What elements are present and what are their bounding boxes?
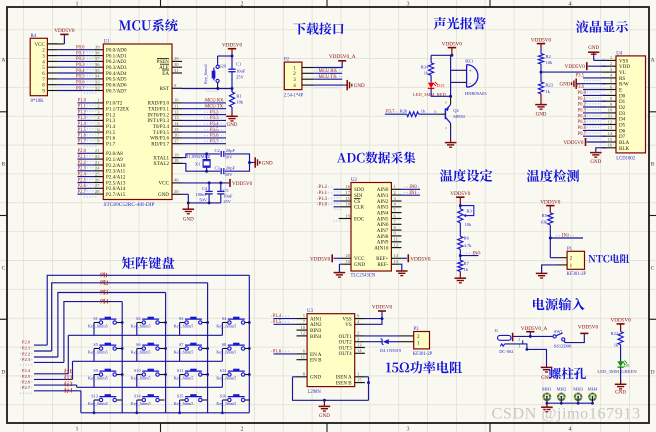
svg-text:Key_6mm5: Key_6mm5 xyxy=(216,401,236,406)
svg-text:GND: GND xyxy=(158,192,169,198)
svg-text:10: 10 xyxy=(174,98,179,103)
svg-text:C4: C4 xyxy=(202,186,208,191)
svg-text:+: + xyxy=(469,68,472,74)
power VDD5V0 (VCC pin) xyxy=(229,179,231,187)
svg-text:S3: S3 xyxy=(179,316,183,321)
svg-text:19: 19 xyxy=(345,213,350,218)
ground (LED) xyxy=(620,367,622,384)
svg-text:32: 32 xyxy=(95,85,100,90)
svg-text:b: b xyxy=(435,110,437,114)
svg-text:Key_6mm5: Key_6mm5 xyxy=(131,375,151,380)
svg-text:P3.6: P3.6 xyxy=(576,85,585,90)
svg-text:U2: U2 xyxy=(351,178,357,183)
wire GND rail (MCU) xyxy=(182,193,188,195)
svg-text:22: 22 xyxy=(95,154,100,159)
U1 XTAL pins xyxy=(172,157,182,159)
title temperature set xyxy=(440,169,492,182)
svg-text:VDD5V0: VDD5V0 xyxy=(372,305,393,311)
svg-text:P2.6: P2.6 xyxy=(22,380,31,385)
wire column feed 3 xyxy=(58,293,166,358)
title download port xyxy=(293,23,343,35)
svg-text:U4: U4 xyxy=(616,51,622,56)
title MCU system xyxy=(119,19,178,32)
MCU U1 xyxy=(103,44,172,200)
svg-text:34: 34 xyxy=(95,74,100,79)
svg-text:19: 19 xyxy=(174,152,179,157)
svg-text:XTAL2: XTAL2 xyxy=(153,161,169,167)
svg-text:RST: RST xyxy=(160,86,170,92)
svg-text:GND: GND xyxy=(262,162,273,167)
LED D15 red xyxy=(430,75,432,82)
svg-text:P2.0: P2.0 xyxy=(22,340,31,345)
svg-text:GND: GND xyxy=(310,375,321,381)
title matrix keyboard xyxy=(122,257,175,270)
svg-text:P0.4: P0.4 xyxy=(76,69,85,74)
svg-text:P3.4: P3.4 xyxy=(210,122,219,127)
power VDD5V0 (U3) xyxy=(365,318,382,320)
svg-text:D4 1N5819: D4 1N5819 xyxy=(380,348,402,353)
svg-text:18: 18 xyxy=(345,202,350,207)
svg-text:25V: 25V xyxy=(236,75,245,80)
net label col1 xyxy=(100,272,108,277)
LCD U4 LCD1602 xyxy=(616,56,646,153)
button S2 xyxy=(137,322,142,324)
svg-text:VDD5V0: VDD5V0 xyxy=(222,43,243,49)
ground (temp set) xyxy=(459,271,461,278)
svg-text:16: 16 xyxy=(608,143,613,148)
svg-text:R34: R34 xyxy=(421,65,429,70)
svg-text:C3: C3 xyxy=(215,165,221,170)
svg-text:S10: S10 xyxy=(134,368,141,373)
svg-text:VDD5V0: VDD5V0 xyxy=(540,199,561,205)
svg-text:P3.7: P3.7 xyxy=(210,139,219,144)
svg-text:10: 10 xyxy=(345,259,350,264)
wire column feed 4 xyxy=(64,302,122,363)
svg-text:P1: P1 xyxy=(567,247,573,252)
svg-text:10k: 10k xyxy=(540,220,548,225)
svg-text:MCU TX: MCU TX xyxy=(205,104,224,109)
svg-text:21: 21 xyxy=(95,148,100,153)
svg-text:17: 17 xyxy=(345,190,350,195)
svg-text:P2.4: P2.4 xyxy=(22,368,31,373)
svg-text:P2.1: P2.1 xyxy=(22,345,31,350)
svg-text:C2: C2 xyxy=(215,148,220,153)
svg-text:P0.1: P0.1 xyxy=(76,51,85,56)
svg-text:S1: S1 xyxy=(93,316,97,321)
svg-text:10k: 10k xyxy=(546,60,554,65)
capacitor C1 xyxy=(231,56,233,69)
ground (R/W) xyxy=(578,83,607,85)
svg-text:KF301-2P: KF301-2P xyxy=(567,272,587,277)
svg-text:R5: R5 xyxy=(542,213,548,218)
svg-text:VDD5V0: VDD5V0 xyxy=(54,28,75,34)
svg-text:P2.1: P2.1 xyxy=(78,155,87,160)
svg-text:GND: GND xyxy=(354,84,365,89)
svg-text:P2.6: P2.6 xyxy=(78,184,87,189)
button S8 xyxy=(222,348,227,350)
svg-text:VDD5V0: VDD5V0 xyxy=(611,317,632,323)
wire jack sleeve to ground xyxy=(500,344,504,346)
svg-text:P1.0: P1.0 xyxy=(319,203,328,208)
capacitor C2 20pF xyxy=(220,151,222,157)
svg-text:P0.5: P0.5 xyxy=(578,120,587,125)
svg-text:P1.4: P1.4 xyxy=(78,122,87,127)
svg-text:VDD5V0: VDD5V0 xyxy=(531,37,552,43)
title ADC data acquisition xyxy=(337,152,416,164)
svg-text:50V: 50V xyxy=(199,197,208,202)
svg-text:P1.5: P1.5 xyxy=(78,128,87,133)
svg-text:VDD5V0: VDD5V0 xyxy=(232,181,253,187)
button S16 xyxy=(222,399,227,401)
button S11 xyxy=(180,374,185,376)
ground (MCU) xyxy=(187,203,189,209)
resistor R7 1k xyxy=(458,260,463,271)
svg-text:Key_6mm5: Key_6mm5 xyxy=(131,349,151,354)
svg-text:GND: GND xyxy=(536,112,547,117)
svg-text:14: 14 xyxy=(357,348,362,353)
ground (R23) xyxy=(540,94,542,105)
svg-text:11: 11 xyxy=(608,114,613,119)
svg-text:17: 17 xyxy=(174,139,179,144)
svg-text:P3: P3 xyxy=(414,327,420,332)
svg-text:X1: X1 xyxy=(195,161,201,166)
svg-text:10k: 10k xyxy=(465,222,473,227)
svg-text:P3.2: P3.2 xyxy=(210,110,219,115)
svg-text:HNB09A03: HNB09A03 xyxy=(465,91,488,96)
svg-text:P0.7/AD7: P0.7/AD7 xyxy=(106,88,127,94)
svg-text:1k: 1k xyxy=(614,342,619,347)
svg-text:P3.5: P3.5 xyxy=(210,128,219,133)
ground (VSS top) xyxy=(594,59,606,61)
title temperature detect xyxy=(527,169,579,182)
net label row3 xyxy=(64,381,73,386)
svg-text:P0.5: P0.5 xyxy=(76,75,85,80)
resistor R6 4.7k xyxy=(459,223,461,237)
svg-text:25V: 25V xyxy=(223,199,232,204)
svg-text:VDD5V0: VDD5V0 xyxy=(442,41,463,47)
svg-text:15: 15 xyxy=(174,127,179,132)
svg-text:Key_6mm5: Key_6mm5 xyxy=(88,323,108,328)
svg-text:VDD5V0: VDD5V0 xyxy=(450,191,471,197)
svg-text:R2: R2 xyxy=(546,54,551,59)
potentiometer R3 10k xyxy=(459,206,461,209)
svg-text:15: 15 xyxy=(608,137,613,142)
svg-text:Key_6mm5: Key_6mm5 xyxy=(88,349,108,354)
svg-text:20pF: 20pF xyxy=(226,165,236,170)
resistor R23 1k xyxy=(540,72,542,82)
svg-text:P1.4: P1.4 xyxy=(273,314,282,319)
svg-text:33: 33 xyxy=(95,80,100,85)
svg-text:P0.3: P0.3 xyxy=(76,63,85,68)
svg-text:P2.3: P2.3 xyxy=(78,167,87,172)
svg-text:3: 3 xyxy=(407,2,410,8)
svg-text:4: 4 xyxy=(569,427,572,432)
svg-text:P2.2: P2.2 xyxy=(78,161,87,166)
ground (download) xyxy=(314,84,345,86)
svg-text:P1.7: P1.7 xyxy=(78,140,87,145)
svg-text:GND: GND xyxy=(560,83,571,88)
button S10 xyxy=(137,374,142,376)
svg-text:OUT4: OUT4 xyxy=(339,351,352,357)
svg-text:B: B xyxy=(2,162,6,168)
svg-text:P0.1: P0.1 xyxy=(578,97,587,102)
svg-text:MH3: MH3 xyxy=(573,387,583,392)
wire E net P3.6 xyxy=(583,89,606,91)
svg-text:P0.7: P0.7 xyxy=(578,132,587,137)
svg-text:IN0: IN0 xyxy=(409,185,417,190)
svg-text:Key_6mm5: Key_6mm5 xyxy=(216,375,236,380)
svg-text:KF301-2P: KF301-2P xyxy=(413,352,433,357)
svg-text:B: B xyxy=(651,162,655,168)
svg-text:3: 3 xyxy=(407,427,410,432)
svg-text:1k: 1k xyxy=(424,71,429,76)
title power input xyxy=(533,298,585,311)
svg-text:P2.5: P2.5 xyxy=(78,178,87,183)
svg-text:S8: S8 xyxy=(222,342,226,347)
button S3 xyxy=(180,322,185,324)
svg-text:11: 11 xyxy=(394,237,399,242)
svg-text:37: 37 xyxy=(95,56,100,61)
svg-text:13: 13 xyxy=(608,125,613,130)
svg-text:P2.3: P2.3 xyxy=(22,357,31,362)
svg-text:Key_6mm5: Key_6mm5 xyxy=(88,375,108,380)
svg-text:P1.2: P1.2 xyxy=(319,185,328,190)
power VDD5V0 (switch) xyxy=(564,333,584,342)
svg-text:R1: R1 xyxy=(236,94,241,99)
svg-text:GND: GND xyxy=(354,262,365,268)
button S14 xyxy=(137,399,142,401)
wire stud gnd rail xyxy=(547,402,593,404)
svg-text:VDD5V0: VDD5V0 xyxy=(563,140,584,146)
svg-text:4: 4 xyxy=(569,2,572,8)
svg-text:P0.0: P0.0 xyxy=(578,91,587,96)
U1 pins PSEN ALE EA xyxy=(172,60,182,62)
svg-text:SW1: SW1 xyxy=(554,329,563,334)
svg-text:IN1: IN1 xyxy=(409,191,417,196)
ground (studs) xyxy=(546,403,548,407)
svg-text:10k: 10k xyxy=(236,100,244,105)
wires P2.4-P2.7 (rows) xyxy=(34,373,68,375)
wire row line 3 xyxy=(77,386,223,388)
svg-text:P0.2: P0.2 xyxy=(578,103,587,108)
ground (REF-) xyxy=(398,264,402,271)
svg-text:1: 1 xyxy=(76,427,79,432)
svg-text:14: 14 xyxy=(394,253,399,258)
svg-text:P2.7: P2.7 xyxy=(22,385,31,390)
svg-text:Key_6mm5: Key_6mm5 xyxy=(131,401,151,406)
svg-text:VDD5V0: VDD5V0 xyxy=(565,64,586,70)
ground (reset R1) xyxy=(231,107,233,111)
svg-text:16: 16 xyxy=(174,133,179,138)
connector P3 KF301-2P xyxy=(414,332,430,349)
svg-text:2.54-1*4P: 2.54-1*4P xyxy=(284,93,304,98)
svg-text:Key_6mm5: Key_6mm5 xyxy=(216,349,236,354)
svg-text:2: 2 xyxy=(241,2,244,8)
svg-text:23: 23 xyxy=(95,160,100,165)
svg-text:36: 36 xyxy=(95,62,100,67)
svg-text:12: 12 xyxy=(300,331,305,336)
wire IN0 tap xyxy=(459,254,462,257)
svg-text:13: 13 xyxy=(394,259,399,264)
net label row4 xyxy=(64,388,73,393)
svg-text:50V: 50V xyxy=(225,172,234,177)
svg-text:20pF: 20pF xyxy=(226,148,236,153)
ground (alarm) xyxy=(450,123,452,126)
wire ISEN A/B to gnd rail xyxy=(365,376,369,378)
svg-text:VDD5V0: VDD5V0 xyxy=(578,325,599,331)
wire XTAL loop xyxy=(172,157,182,159)
wire MCU RX xyxy=(314,72,342,74)
svg-text:REF-: REF- xyxy=(377,262,388,268)
button S7 xyxy=(180,348,185,350)
svg-text:35: 35 xyxy=(95,68,100,73)
svg-text:LED_3MM_GREEN: LED_3MM_GREEN xyxy=(597,369,637,374)
svg-text:GND: GND xyxy=(588,46,599,51)
svg-text:CSDN @jimo167913: CSDN @jimo167913 xyxy=(492,405,641,423)
svg-text:BLK: BLK xyxy=(619,146,630,152)
net label col2 xyxy=(100,280,109,285)
svg-text:Key_6mm5: Key_6mm5 xyxy=(174,349,194,354)
wires P2.0-P2.3 (columns) xyxy=(34,344,47,346)
wire RS net P3.5 xyxy=(583,77,606,79)
svg-text:P2.7: P2.7 xyxy=(78,190,87,195)
svg-text:S12: S12 xyxy=(220,368,227,373)
svg-text:P0.4: P0.4 xyxy=(578,114,587,119)
svg-text:IN0: IN0 xyxy=(473,251,481,256)
svg-text:P0.3: P0.3 xyxy=(578,109,587,114)
svg-text:P0.7: P0.7 xyxy=(76,86,85,91)
svg-text:R22: R22 xyxy=(611,331,619,336)
resistor R5 10k xyxy=(548,213,553,225)
svg-text:Key_6mm5: Key_6mm5 xyxy=(174,323,194,328)
title NTC resistor xyxy=(588,254,629,263)
svg-text:3: 3 xyxy=(518,345,520,349)
svg-text:24: 24 xyxy=(95,166,100,171)
svg-text:12: 12 xyxy=(394,242,399,247)
wire reset top xyxy=(218,55,232,57)
svg-text:14: 14 xyxy=(174,121,179,126)
svg-text:R26: R26 xyxy=(400,108,408,113)
svg-text:38: 38 xyxy=(95,50,100,55)
title sound-light alarm xyxy=(434,17,486,29)
svg-text:Key_6mm5: Key_6mm5 xyxy=(203,64,208,84)
wire OUT1 to P3 xyxy=(365,335,399,337)
svg-text:1k: 1k xyxy=(464,267,469,272)
power VDD5V0 (R4) xyxy=(47,43,64,45)
svg-text:AIN10: AIN10 xyxy=(374,246,389,252)
svg-text:P3.5: P3.5 xyxy=(576,74,585,79)
svg-text:1k: 1k xyxy=(545,89,550,94)
svg-text:MCU RX: MCU RX xyxy=(319,69,338,74)
svg-text:29: 29 xyxy=(174,56,179,61)
svg-text:STC89C52RC-40I-DIP: STC89C52RC-40I-DIP xyxy=(104,202,155,208)
svg-text:Key_6mm5: Key_6mm5 xyxy=(216,323,236,328)
wire row line 1 xyxy=(68,334,222,336)
wire U3 gnd rail xyxy=(293,376,297,378)
svg-text:P1.1: P1.1 xyxy=(78,105,87,110)
svg-text:Key_6mm5: Key_6mm5 xyxy=(174,401,194,406)
svg-text:A: A xyxy=(651,58,655,64)
svg-text:10: 10 xyxy=(608,108,613,113)
svg-text:A: A xyxy=(1,58,5,64)
svg-text:S6: S6 xyxy=(136,342,140,347)
svg-text:4.7k: 4.7k xyxy=(464,243,473,248)
svg-text:14: 14 xyxy=(608,131,613,136)
svg-text:GND: GND xyxy=(615,391,626,396)
button S12 xyxy=(222,374,227,376)
svg-text:D: D xyxy=(651,370,655,376)
svg-text:11: 11 xyxy=(301,355,306,360)
svg-text:18: 18 xyxy=(174,158,179,163)
svg-text:D15: D15 xyxy=(437,83,445,88)
resistor R1 10k xyxy=(231,89,233,93)
ground (power input) xyxy=(541,366,553,368)
svg-text:GND: GND xyxy=(227,123,238,128)
svg-text:P1.3: P1.3 xyxy=(319,197,328,202)
svg-text:10: 10 xyxy=(300,325,305,330)
svg-text:C: C xyxy=(651,266,655,272)
svg-text:30: 30 xyxy=(174,62,179,67)
svg-text:U3: U3 xyxy=(307,309,313,314)
wire column feed 2 xyxy=(52,283,208,351)
U1 VCC GND pins xyxy=(172,182,182,184)
svg-text:16: 16 xyxy=(345,184,350,189)
svg-text:40: 40 xyxy=(174,178,179,183)
switch SW1 SS12D00 xyxy=(553,335,556,338)
svg-text:ISEN B: ISEN B xyxy=(336,381,353,387)
wire row line 4 xyxy=(81,412,223,414)
svg-text:1: 1 xyxy=(76,2,79,8)
svg-text:13: 13 xyxy=(174,115,179,120)
svg-text:100nF: 100nF xyxy=(195,192,207,197)
diode D4 1N5819 xyxy=(365,341,382,343)
resistor R2 10k + power xyxy=(537,43,545,45)
svg-text:S9: S9 xyxy=(93,368,97,373)
title LCD display xyxy=(576,20,628,32)
svg-text:U1: U1 xyxy=(104,40,110,45)
power VDD5V0 (BLA) xyxy=(587,141,607,143)
power VDD5V0_A (jack) xyxy=(513,335,553,337)
svg-text:P2.0: P2.0 xyxy=(78,149,87,154)
svg-text:S13: S13 xyxy=(91,393,98,398)
svg-text:MCU RX: MCU RX xyxy=(205,99,224,104)
svg-text:P0.6: P0.6 xyxy=(76,81,85,86)
power VDD5V0 (temp set) xyxy=(456,196,464,198)
svg-text:P1.5: P1.5 xyxy=(273,320,282,325)
connector P1 KF301-2P xyxy=(550,257,557,259)
wire column feed 1 xyxy=(47,275,249,345)
driver U3 L298N xyxy=(307,314,355,387)
wire column verticals xyxy=(121,302,123,413)
svg-text:-: - xyxy=(469,80,471,86)
svg-text:L298N: L298N xyxy=(308,390,322,395)
svg-text:MCU TX: MCU TX xyxy=(319,75,338,80)
svg-text:BIN4: BIN4 xyxy=(310,334,322,340)
svg-text:VCC: VCC xyxy=(35,43,46,48)
svg-text:P2.5: P2.5 xyxy=(22,374,31,379)
svg-text:S7: S7 xyxy=(179,342,183,347)
power VDD5V0 (alarm) xyxy=(448,47,456,49)
svg-text:R7: R7 xyxy=(464,261,470,266)
wire VCC row xyxy=(182,182,229,184)
capacitor C3 20pF xyxy=(220,168,222,174)
ground (BLK) xyxy=(596,148,606,153)
capacitor C5 10uF xyxy=(220,183,222,192)
svg-text:J1: J1 xyxy=(494,328,498,333)
svg-text:P0.2: P0.2 xyxy=(76,57,85,62)
svg-text:P2.7/A15: P2.7/A15 xyxy=(106,192,126,198)
svg-text:S8550: S8550 xyxy=(453,114,465,119)
